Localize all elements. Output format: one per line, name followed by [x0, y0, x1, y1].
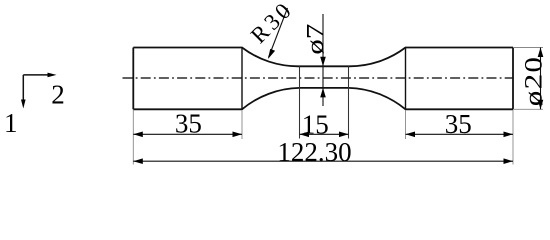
svg-text:2: 2 [51, 79, 65, 109]
dimension 35 left [133, 132, 242, 138]
dimension 122.30 overall [133, 158, 513, 164]
tangent edge line left grip end [241, 48, 243, 110]
svg-text:ø20: ø20 [520, 56, 547, 107]
dimension 35 right [406, 132, 514, 138]
svg-text:1: 1 [4, 108, 18, 138]
dimension 15 [300, 132, 349, 138]
coordinate axes symbol [21, 73, 57, 109]
svg-text:ø7: ø7 [303, 24, 330, 55]
R30 leader line and arrowhead [268, 8, 288, 59]
svg-text:35: 35 [175, 109, 202, 139]
centerline (dash-dot axis of specimen) [123, 77, 514, 79]
tangent edge line right grip end [405, 48, 407, 110]
svg-text:122.30: 122.30 [277, 137, 351, 167]
svg-text:15: 15 [302, 109, 329, 139]
svg-text:35: 35 [445, 109, 472, 139]
gauge extension line left (x=299.5) [299, 66, 301, 138]
extension line left grip right (x=242) [241, 110, 243, 139]
gauge extension line right (x=348.5) [348, 66, 350, 138]
diameter dimension line o7 [320, 14, 326, 106]
diameter dimension line o20 [538, 48, 544, 110]
extension line left end (x=133.3) [132, 110, 134, 165]
extension line o20 bottom [513, 108, 543, 110]
extension line right grip left (x=405.5) [405, 110, 407, 139]
extension line right end (x=513) [512, 110, 514, 165]
specimen outline (dog-bone tensile specimen) [133, 48, 513, 110]
extension line o20 top [513, 47, 543, 49]
